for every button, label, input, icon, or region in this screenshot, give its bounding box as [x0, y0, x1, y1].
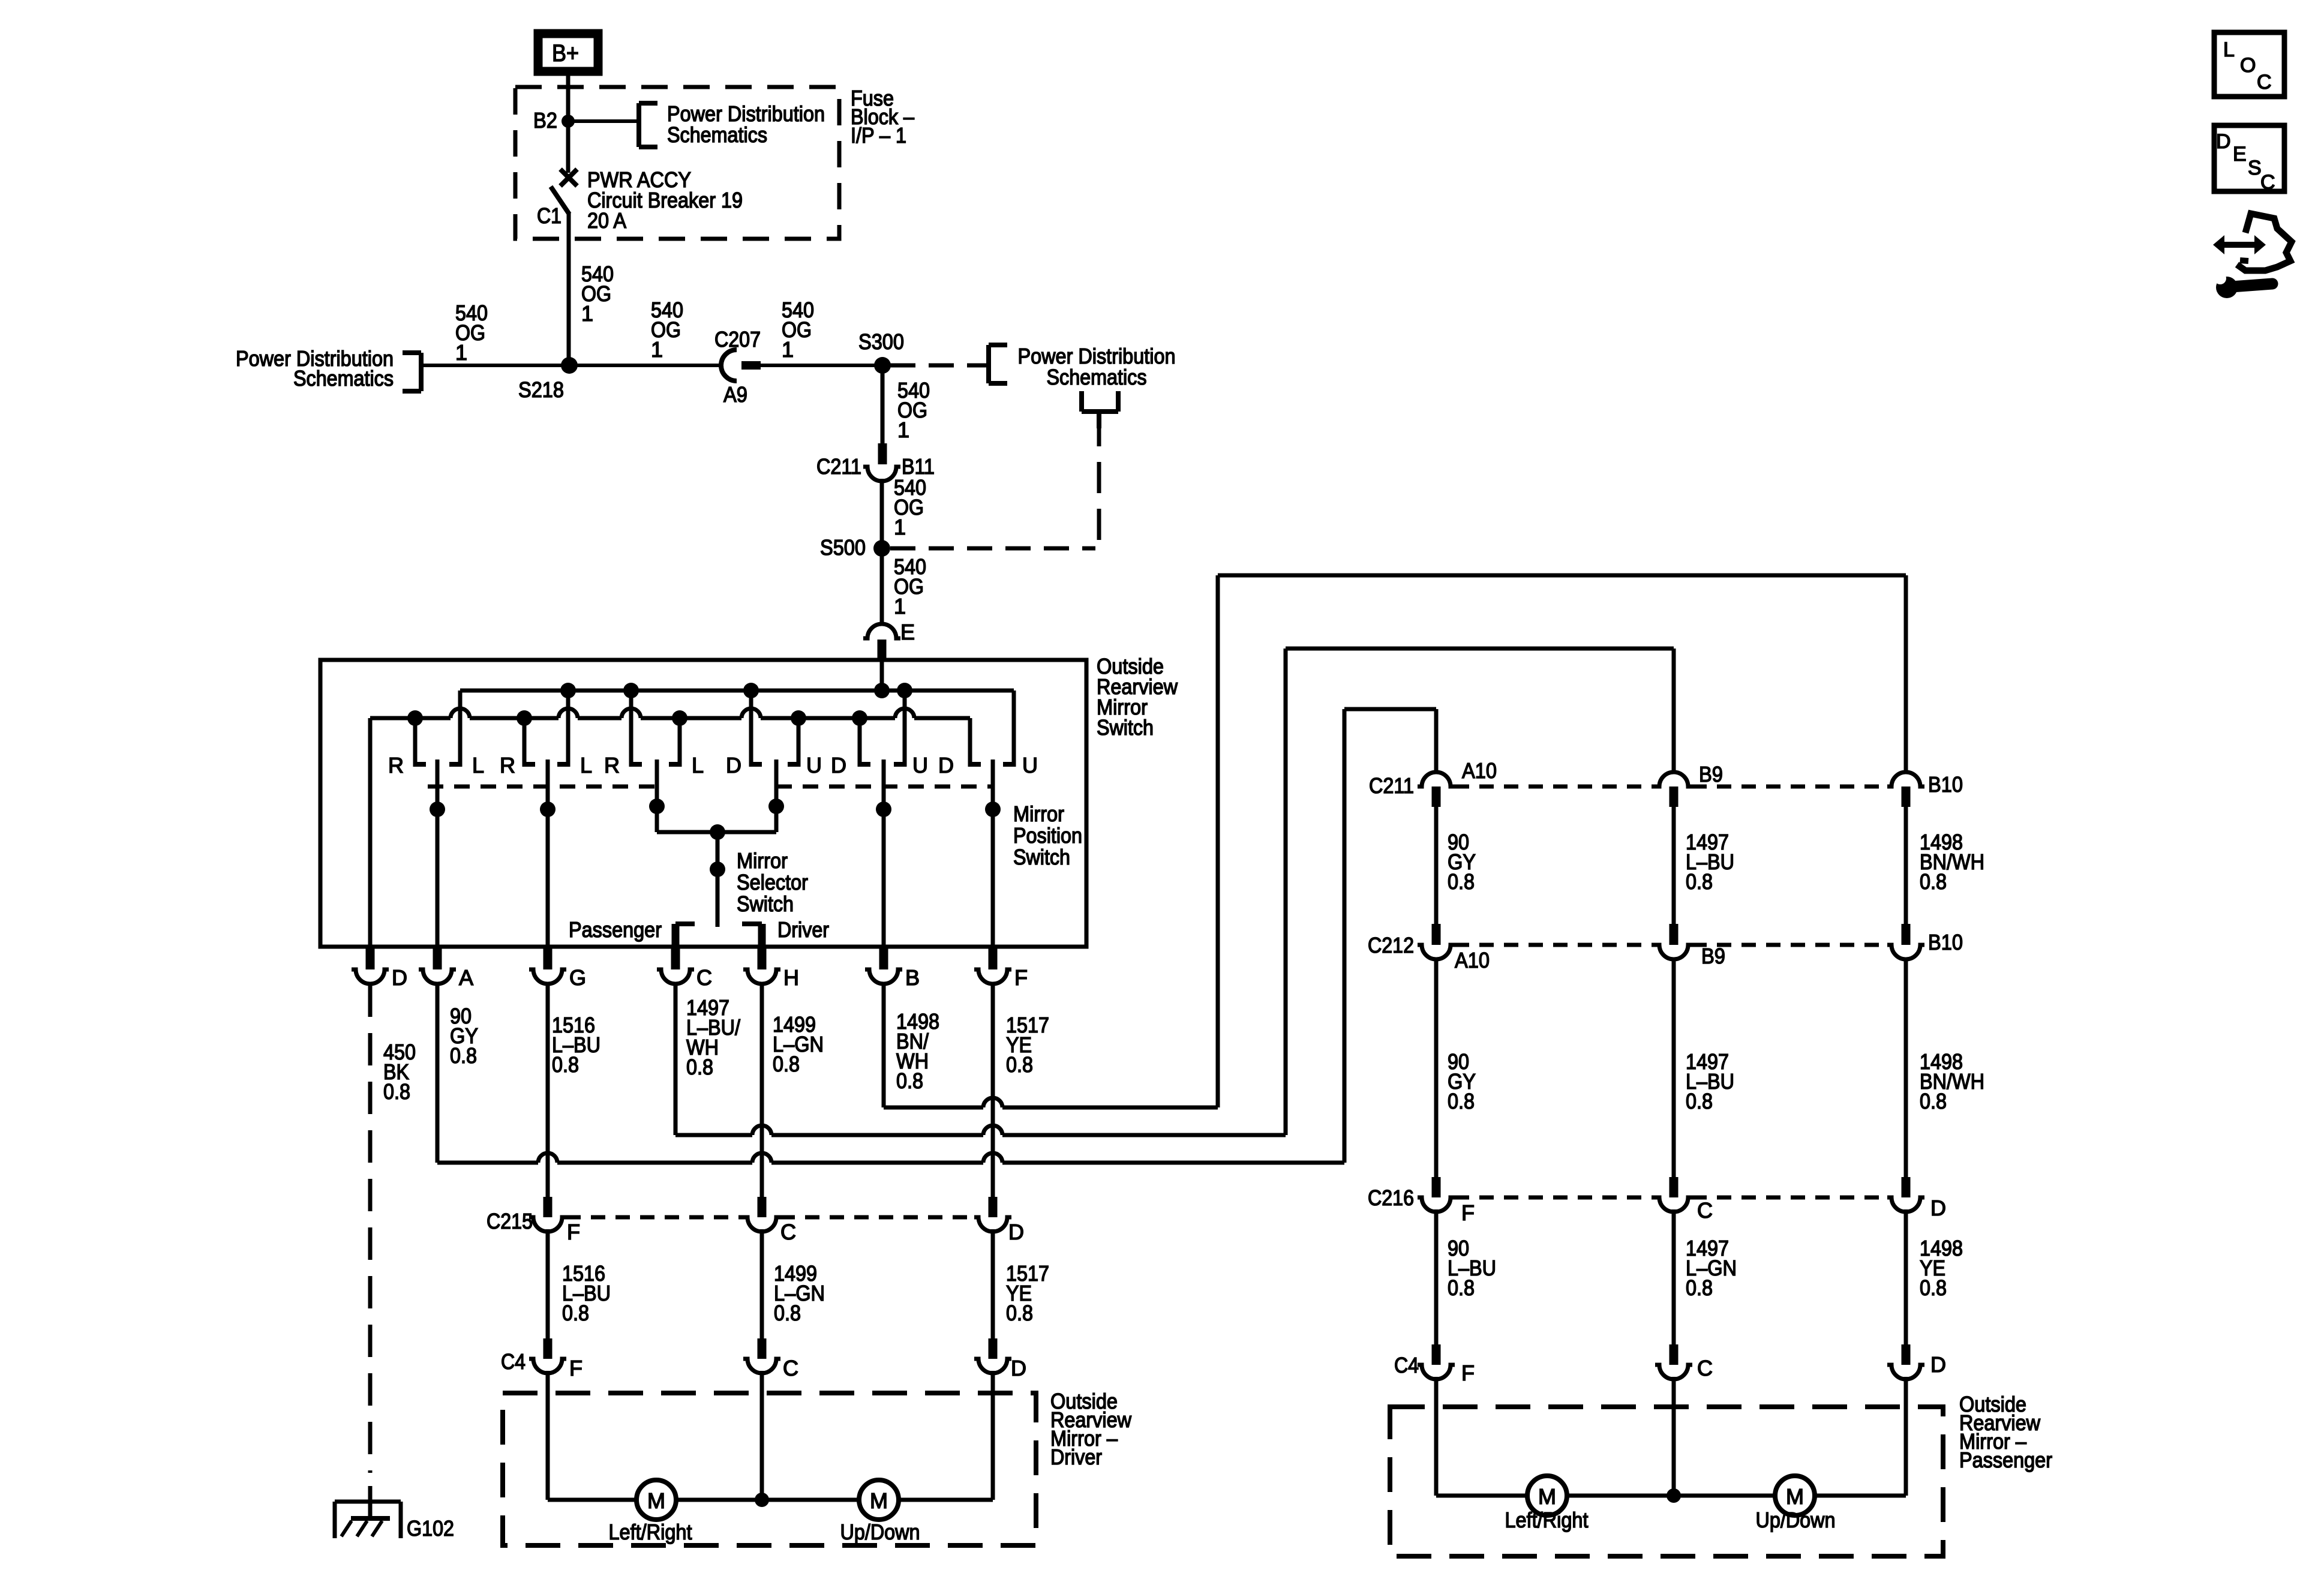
svg-text:H: H — [783, 965, 799, 990]
svg-text:B: B — [905, 965, 920, 990]
svg-text:0.8: 0.8 — [562, 1301, 589, 1325]
svg-text:F: F — [567, 1220, 580, 1244]
svg-text:D: D — [1008, 1220, 1024, 1244]
svg-text:R: R — [388, 753, 404, 778]
svg-text:S500: S500 — [820, 535, 866, 560]
svg-text:L: L — [2223, 38, 2235, 61]
svg-text:C1: C1 — [537, 203, 562, 228]
svg-text:Schematics: Schematics — [667, 122, 767, 147]
svg-text:L: L — [692, 753, 704, 778]
svg-text:C212: C212 — [1368, 933, 1414, 957]
svg-text:0.8: 0.8 — [686, 1055, 713, 1079]
svg-text:B2: B2 — [533, 108, 557, 133]
svg-text:C: C — [1697, 1198, 1713, 1223]
svg-text:D: D — [726, 753, 741, 778]
svg-text:0.8: 0.8 — [383, 1079, 410, 1104]
svg-text:0.8: 0.8 — [774, 1301, 801, 1325]
svg-text:I/P – 1: I/P – 1 — [851, 123, 906, 148]
svg-text:R: R — [604, 753, 620, 778]
svg-text:C207: C207 — [714, 327, 761, 352]
svg-text:0.8: 0.8 — [1448, 1275, 1475, 1300]
svg-text:Switch: Switch — [1097, 715, 1154, 740]
svg-text:1: 1 — [782, 337, 794, 362]
svg-text:C211: C211 — [816, 454, 861, 479]
svg-text:C215: C215 — [487, 1209, 533, 1233]
svg-text:C: C — [783, 1356, 798, 1380]
svg-text:A9: A9 — [723, 382, 747, 407]
svg-text:B+: B+ — [552, 40, 579, 67]
svg-text:0.8: 0.8 — [1686, 1089, 1713, 1113]
svg-text:C211: C211 — [1369, 773, 1414, 798]
svg-text:Switch: Switch — [737, 891, 794, 916]
svg-text:M: M — [870, 1488, 888, 1513]
svg-text:Position: Position — [1013, 823, 1082, 848]
svg-text:0.8: 0.8 — [1920, 869, 1947, 894]
svg-text:S300: S300 — [858, 329, 904, 354]
svg-text:A10: A10 — [1455, 948, 1490, 972]
svg-text:D: D — [938, 753, 954, 778]
svg-text:C: C — [2257, 71, 2272, 94]
svg-text:1: 1 — [581, 301, 593, 326]
svg-text:D: D — [831, 753, 846, 778]
svg-text:U: U — [912, 753, 928, 778]
svg-text:F: F — [569, 1356, 582, 1380]
svg-text:0.8: 0.8 — [773, 1052, 800, 1076]
svg-text:C: C — [780, 1220, 796, 1244]
svg-text:0.8: 0.8 — [1920, 1275, 1947, 1300]
svg-text:R: R — [500, 753, 515, 778]
svg-text:20 A: 20 A — [587, 208, 626, 233]
svg-text:U: U — [806, 753, 822, 778]
svg-text:A: A — [459, 965, 473, 990]
svg-text:0.8: 0.8 — [1448, 1089, 1475, 1113]
svg-text:S: S — [2248, 157, 2262, 179]
svg-text:F: F — [1014, 965, 1028, 990]
svg-text:M: M — [647, 1488, 665, 1513]
svg-text:D: D — [2216, 130, 2231, 153]
svg-text:Left/Right: Left/Right — [1505, 1508, 1589, 1532]
svg-text:L: L — [472, 753, 484, 778]
svg-text:B9: B9 — [1699, 762, 1723, 786]
svg-text:Schematics: Schematics — [293, 366, 394, 391]
svg-text:Up/Down: Up/Down — [1756, 1508, 1836, 1532]
svg-text:1: 1 — [894, 515, 906, 539]
svg-text:U: U — [1022, 753, 1038, 778]
svg-text:Driver: Driver — [777, 917, 829, 942]
svg-text:C: C — [1697, 1356, 1713, 1380]
svg-text:Schematics: Schematics — [1047, 365, 1147, 389]
svg-text:B10: B10 — [1928, 930, 1963, 954]
svg-text:M: M — [1786, 1484, 1804, 1509]
svg-text:Mirror: Mirror — [737, 848, 788, 873]
svg-text:0.8: 0.8 — [1448, 869, 1475, 894]
svg-text:0.8: 0.8 — [552, 1052, 579, 1077]
svg-text:Driver: Driver — [1050, 1445, 1102, 1469]
svg-text:1: 1 — [894, 594, 906, 619]
svg-text:0.8: 0.8 — [1686, 869, 1713, 894]
svg-text:L: L — [580, 753, 592, 778]
svg-text:1: 1 — [651, 337, 663, 362]
svg-text:Left/Right: Left/Right — [609, 1520, 692, 1544]
svg-text:Up/Down: Up/Down — [840, 1520, 920, 1544]
svg-text:C216: C216 — [1368, 1185, 1414, 1210]
svg-text:C4: C4 — [1394, 1353, 1419, 1377]
svg-text:Passenger: Passenger — [569, 917, 662, 942]
svg-text:G102: G102 — [407, 1516, 454, 1541]
svg-text:C: C — [2260, 171, 2275, 194]
svg-text:D: D — [392, 965, 407, 990]
svg-text:C: C — [696, 965, 712, 990]
svg-text:C4: C4 — [501, 1349, 526, 1374]
svg-text:1: 1 — [455, 340, 467, 365]
svg-text:0.8: 0.8 — [1686, 1275, 1713, 1300]
svg-text:0.8: 0.8 — [450, 1043, 477, 1068]
svg-text:E: E — [900, 620, 915, 644]
svg-text:S218: S218 — [518, 377, 564, 402]
svg-text:E: E — [2233, 143, 2247, 166]
svg-text:B10: B10 — [1928, 772, 1963, 797]
svg-text:Selector: Selector — [737, 870, 808, 894]
svg-text:0.8: 0.8 — [1920, 1089, 1947, 1113]
svg-text:0.8: 0.8 — [1006, 1052, 1033, 1077]
svg-text:Switch: Switch — [1013, 845, 1070, 869]
svg-text:A10: A10 — [1462, 758, 1497, 783]
svg-text:M: M — [1538, 1484, 1556, 1509]
svg-text:0.8: 0.8 — [896, 1068, 923, 1093]
svg-text:1: 1 — [897, 418, 909, 442]
svg-text:0.8: 0.8 — [1006, 1301, 1033, 1325]
svg-text:G: G — [569, 965, 586, 990]
svg-text:D: D — [1011, 1356, 1026, 1380]
svg-text:D: D — [1930, 1352, 1946, 1377]
svg-text:F: F — [1461, 1361, 1475, 1385]
svg-text:D: D — [1930, 1196, 1946, 1220]
svg-text:F: F — [1461, 1200, 1475, 1225]
svg-text:B9: B9 — [1701, 944, 1725, 968]
svg-text:Passenger: Passenger — [1959, 1448, 2052, 1472]
svg-text:Mirror: Mirror — [1013, 801, 1064, 826]
svg-text:O: O — [2240, 54, 2256, 77]
